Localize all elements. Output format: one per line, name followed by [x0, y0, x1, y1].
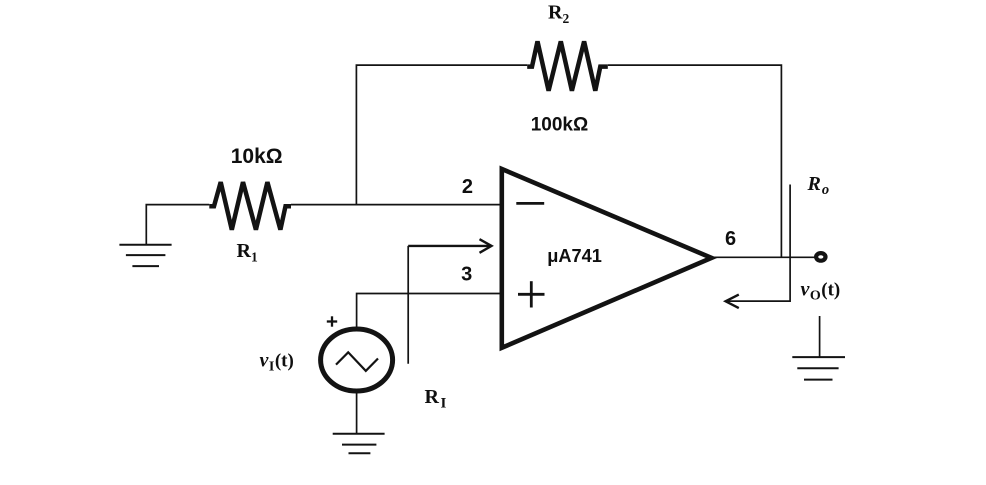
svg-text:R2: R2 — [548, 1, 569, 26]
svg-text:vO(t): vO(t) — [801, 279, 841, 304]
svg-text:Ro: Ro — [807, 173, 830, 198]
svg-text:2: 2 — [462, 176, 473, 198]
svg-text:10kΩ: 10kΩ — [231, 145, 283, 168]
svg-text:R1: R1 — [237, 240, 258, 265]
svg-text:3: 3 — [461, 264, 472, 286]
svg-text:μA741: μA741 — [547, 246, 602, 266]
svg-text:vI(t): vI(t) — [260, 350, 294, 375]
svg-text:6: 6 — [725, 228, 736, 250]
svg-text:RI: RI — [425, 386, 447, 412]
svg-text:100kΩ: 100kΩ — [531, 114, 589, 135]
